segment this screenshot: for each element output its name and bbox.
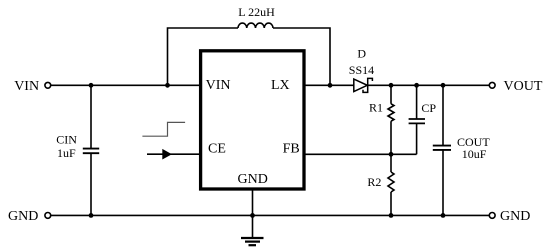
node FB junction (389, 152, 394, 157)
svg-text:GND: GND (500, 209, 530, 224)
svg-text:FB: FB (283, 142, 300, 157)
inductor L 22uH (238, 5, 275, 28)
capacitor CIN 1uF (56, 133, 99, 160)
wire diode to VOUT (368, 84, 490, 86)
svg-text:CE: CE (208, 142, 226, 157)
terminal VIN (14, 79, 50, 94)
svg-text:SS14: SS14 (349, 63, 374, 77)
diode D SS14 (349, 47, 374, 93)
svg-text:GND: GND (8, 209, 38, 224)
svg-text:LX: LX (271, 78, 290, 93)
node R1 top (389, 83, 394, 88)
wire CIN upper lead (90, 85, 92, 148)
wire bottom GND rail (51, 214, 489, 216)
capacitor CP (409, 85, 437, 154)
step waveform symbol (142, 122, 185, 136)
svg-text:VOUT: VOUT (504, 79, 543, 94)
ground (241, 238, 264, 245)
capacitor COUT 10uF (433, 85, 491, 215)
terminal GND left (8, 209, 51, 224)
svg-text:R1: R1 (369, 101, 383, 115)
node riser junction (165, 83, 170, 88)
wire FB (305, 153, 417, 155)
resistor R2 (367, 154, 394, 215)
wire inductor to LX riser (273, 28, 330, 85)
svg-text:CIN: CIN (56, 133, 77, 147)
terminal GND right (489, 209, 530, 224)
svg-text:D: D (357, 47, 366, 61)
svg-text:VIN: VIN (206, 78, 231, 93)
svg-text:10uF: 10uF (462, 147, 487, 161)
wire GND pin to ground (252, 190, 254, 238)
wire VIN input rail (51, 84, 200, 86)
resistor R1 (369, 85, 394, 154)
node VIN/CIN junction (89, 83, 94, 88)
svg-text:R2: R2 (367, 175, 381, 189)
node LX junction (328, 83, 333, 88)
node bottom GND pin (250, 213, 255, 218)
svg-text:CP: CP (421, 101, 436, 115)
svg-text:GND: GND (238, 172, 268, 187)
svg-text:VIN: VIN (14, 79, 39, 94)
CE input arrow (147, 149, 200, 160)
wire riser to inductor (168, 28, 239, 85)
node CP top (414, 83, 419, 88)
svg-text:L 22uH: L 22uH (238, 5, 275, 19)
terminal VOUT (489, 79, 543, 94)
wire CIN lower lead (90, 153, 92, 215)
node bottom R2 (389, 213, 394, 218)
wire LX to diode (305, 84, 354, 86)
node COUT top (441, 83, 446, 88)
node bottom CIN (89, 213, 94, 218)
IC U1 (201, 51, 304, 189)
svg-text:1uF: 1uF (57, 146, 76, 160)
node bottom COUT (441, 213, 446, 218)
